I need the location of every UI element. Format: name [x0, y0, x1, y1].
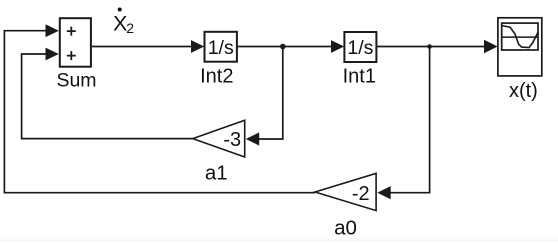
scope screen inner — [502, 23, 538, 50]
arrowhead into Int2 — [191, 40, 204, 53]
arrowhead into Scope — [484, 40, 498, 53]
scope block outer — [498, 18, 542, 76]
node label X-dot-2 — [113, 8, 134, 37]
svg-text:-2: -2 — [352, 183, 370, 205]
wire Int1 to Scope — [376, 46, 486, 48]
svg-text:Int1: Int1 — [343, 66, 376, 88]
svg-text:a1: a1 — [205, 162, 228, 185]
wire gain a0 output feedback to Sum input 1 — [4, 31, 315, 193]
arrowhead into Sum input 1 — [46, 24, 59, 37]
arrowhead into gain a1 — [246, 132, 259, 145]
svg-text:Int2: Int2 — [200, 66, 233, 88]
scope axis line — [502, 36, 538, 38]
svg-text:2: 2 — [126, 20, 134, 36]
plus sign input 1 — [67, 27, 76, 36]
junction node after Int1 — [427, 44, 432, 49]
svg-text:1/s: 1/s — [347, 37, 373, 59]
wire Int2 to Int1 — [237, 46, 333, 48]
svg-text:1/s: 1/s — [208, 37, 234, 59]
integrator block Int1 — [344, 32, 376, 62]
svg-text:a0: a0 — [334, 216, 357, 239]
svg-text:x(t): x(t) — [509, 80, 538, 102]
wire gain a1 output feedback to Sum input 2 — [22, 54, 193, 139]
wire main signal line Sum to Int2 — [91, 46, 193, 48]
integrator block Int2 — [205, 32, 237, 62]
arrowhead into Int1 — [331, 40, 344, 53]
wire junction2 down to gain a0 — [390, 47, 430, 193]
svg-text:-3: -3 — [223, 129, 241, 151]
gain block a0 triangle — [315, 173, 376, 210]
scope waveform — [503, 26, 539, 48]
arrowhead into gain a0 — [377, 186, 390, 199]
svg-text:Sum: Sum — [56, 70, 96, 92]
svg-text:X: X — [113, 12, 127, 36]
wire junction1 down to gain a1 — [258, 47, 283, 140]
sum block Sum — [60, 18, 91, 66]
plus sign input 2 — [67, 51, 76, 60]
junction node after Int2 — [280, 44, 286, 50]
gain block a1 triangle — [193, 120, 245, 157]
arrowhead into Sum input 2 — [46, 48, 59, 61]
faint bottom artifact line — [0, 240, 558, 242]
